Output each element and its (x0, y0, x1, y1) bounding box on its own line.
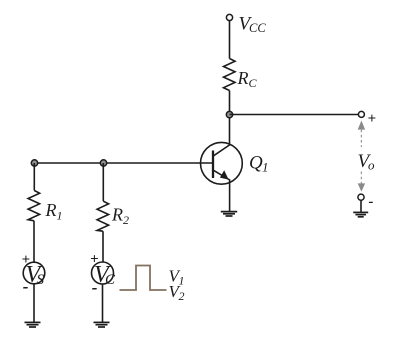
arrow Vo lower (358, 183, 365, 191)
svg-text:2: 2 (123, 213, 129, 227)
wire emitter to ground (229, 180, 231, 212)
node collector junction (226, 111, 232, 117)
ground emitter (221, 212, 237, 216)
label RC (237, 68, 258, 90)
label V1 (169, 267, 185, 288)
node R1 junction (31, 160, 37, 166)
svg-text:1: 1 (179, 274, 185, 288)
wire R2 to VC (102, 231, 104, 262)
node VCC terminal (226, 14, 232, 20)
resistor R2 (97, 201, 109, 231)
svg-text:1: 1 (57, 209, 63, 223)
wire RC to collector (229, 91, 231, 146)
svg-text:+: + (368, 111, 377, 127)
label VCC (239, 14, 267, 36)
svg-text:C: C (105, 272, 116, 288)
svg-text:-: - (92, 278, 98, 297)
transistor Q1 (201, 142, 243, 184)
wire VCC to RC (229, 21, 231, 59)
svg-text:S: S (37, 272, 45, 288)
wire R1 to VS (33, 221, 35, 262)
node output - terminal (358, 194, 364, 200)
wire node to R1 (33, 163, 35, 191)
svg-text:CC: CC (249, 21, 266, 35)
svg-text:Q: Q (249, 153, 263, 174)
node output + terminal (358, 111, 364, 117)
wire dashed Vo lower (360, 172, 362, 184)
wire node to R2 (102, 163, 104, 201)
svg-text:R: R (237, 68, 249, 88)
resistor RC (224, 59, 236, 91)
node R2 junction (100, 160, 106, 166)
source VC (92, 262, 117, 288)
wire dashed Vo upper (360, 130, 362, 147)
source VS (23, 262, 45, 288)
label V2 (169, 282, 185, 303)
wire - terminal to ground (360, 200, 362, 212)
svg-text:C: C (249, 76, 258, 90)
wire VS to ground (33, 284, 35, 322)
label Q1 (249, 153, 269, 175)
svg-text:2: 2 (179, 289, 185, 303)
svg-text:o: o (368, 158, 375, 173)
ground VC (94, 322, 110, 327)
wire base bus (35, 162, 214, 164)
resistor R1 (28, 191, 39, 221)
pulse waveform symbol (120, 266, 167, 291)
label R2 (111, 205, 129, 228)
svg-text:-: - (369, 194, 374, 210)
ground output (353, 212, 368, 216)
ground VS (25, 322, 41, 327)
svg-text:R: R (111, 205, 123, 225)
svg-text:1: 1 (262, 160, 269, 175)
arrow Vo upper (358, 121, 365, 130)
svg-text:R: R (45, 200, 57, 220)
wire collector to output terminal (230, 114, 359, 116)
svg-text:-: - (23, 277, 29, 296)
label R1 (45, 200, 63, 223)
wire VC to ground (102, 284, 104, 322)
label Vo (358, 151, 376, 173)
